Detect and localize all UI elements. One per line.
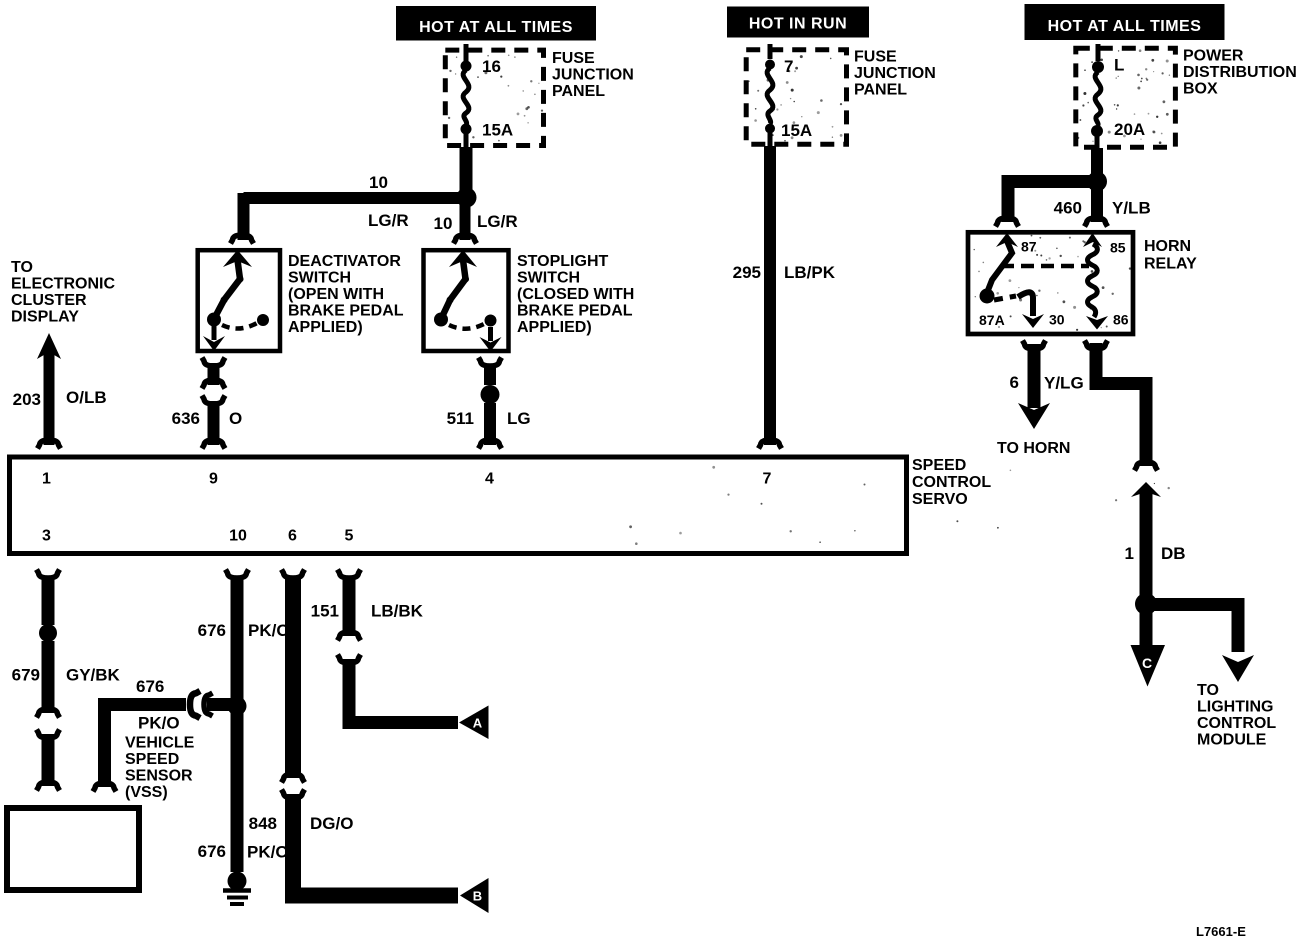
label: SPEED CONTROL SERVO bbox=[912, 457, 991, 508]
scan speckle texture bbox=[448, 49, 1170, 545]
svg-text:SWITCH: SWITCH bbox=[517, 270, 580, 287]
svg-text:PK/O: PK/O bbox=[247, 843, 289, 862]
svg-text:460: 460 bbox=[1054, 199, 1082, 218]
wire 676 PK/O continues to ground bbox=[231, 706, 244, 872]
svg-text:SWITCH: SWITCH bbox=[288, 270, 351, 287]
svg-text:SERVO: SERVO bbox=[912, 491, 968, 508]
svg-text:DISTRIBUTION: DISTRIBUTION bbox=[1183, 64, 1297, 81]
wire 460 Y/LB branch left to relay pin 87 bbox=[1008, 182, 1097, 223]
svg-text:POWER: POWER bbox=[1183, 48, 1244, 65]
svg-text:3: 3 bbox=[42, 528, 51, 545]
svg-text:CLUSTER: CLUSTER bbox=[11, 292, 87, 309]
wire: 848 lower run to off-page connector B bbox=[282, 790, 459, 896]
svg-text:O: O bbox=[229, 409, 242, 428]
svg-text:1: 1 bbox=[42, 471, 51, 488]
svg-text:(CLOSED WITH: (CLOSED WITH bbox=[517, 286, 634, 303]
wire: fuse 16 output down to junction bbox=[460, 147, 473, 192]
svg-text:848: 848 bbox=[249, 814, 277, 833]
deactivator switch arm and contacts bbox=[203, 250, 269, 351]
speed control servo box bbox=[10, 457, 907, 554]
svg-text:LB/BK: LB/BK bbox=[371, 602, 424, 621]
svg-text:APPLIED): APPLIED) bbox=[288, 319, 363, 336]
branch: arrow connector to VSS 676 PK/O bbox=[93, 691, 237, 792]
svg-text:203: 203 bbox=[13, 390, 41, 409]
svg-text:(VSS): (VSS) bbox=[125, 784, 168, 801]
wire: junction down to stoplight switch bbox=[460, 202, 471, 240]
deactivator switch S1 box bbox=[198, 250, 280, 351]
wire 848 DG/O from servo pin 6 bbox=[282, 570, 305, 783]
svg-text:BRAKE PEDAL: BRAKE PEDAL bbox=[517, 303, 633, 320]
svg-text:6: 6 bbox=[1010, 373, 1019, 392]
svg-text:ELECTRONIC: ELECTRONIC bbox=[11, 276, 115, 293]
off-page connector A bbox=[459, 706, 489, 740]
svg-text:BRAKE PEDAL: BRAKE PEDAL bbox=[288, 303, 404, 320]
svg-text:Y/LG: Y/LG bbox=[1044, 374, 1084, 393]
label: FUSE JUNCTION PANEL (left) bbox=[552, 50, 634, 100]
svg-text:676: 676 bbox=[198, 621, 226, 640]
svg-text:DEACTIVATOR: DEACTIVATOR bbox=[288, 253, 401, 270]
fuse L 20A symbol bbox=[1091, 44, 1104, 149]
svg-text:1: 1 bbox=[1125, 544, 1134, 563]
wire: branch right to lighting control module bbox=[1146, 605, 1254, 683]
junction node 460 Y/LB bbox=[1087, 172, 1107, 192]
svg-text:C: C bbox=[1142, 655, 1152, 671]
wire: PDB output down to junction bbox=[1091, 148, 1103, 176]
svg-text:DB: DB bbox=[1161, 544, 1186, 563]
label: POWER DISTRIBUTION BOX bbox=[1183, 48, 1297, 98]
svg-text:RELAY: RELAY bbox=[1144, 256, 1197, 273]
relay internals: arm, contacts, coil bbox=[980, 233, 1109, 330]
svg-text:10: 10 bbox=[434, 214, 453, 233]
connector: into stoplight switch bbox=[454, 235, 477, 244]
svg-text:PANEL: PANEL bbox=[552, 83, 605, 100]
wire: relay pin 86 jog down bbox=[1085, 341, 1158, 471]
svg-text:CONTROL: CONTROL bbox=[912, 474, 991, 491]
svg-text:676: 676 bbox=[136, 677, 164, 696]
svg-text:HOT AT ALL TIMES: HOT AT ALL TIMES bbox=[419, 19, 573, 36]
fuse junction panel box (middle, fuse 7) bbox=[746, 50, 846, 145]
svg-text:SPEED: SPEED bbox=[912, 457, 966, 474]
svg-text:Y/LB: Y/LB bbox=[1112, 199, 1151, 218]
svg-text:15A: 15A bbox=[781, 121, 812, 140]
label: HORN RELAY bbox=[1144, 238, 1197, 273]
svg-text:86: 86 bbox=[1113, 312, 1129, 328]
svg-text:85: 85 bbox=[1110, 240, 1126, 256]
svg-text:FUSE: FUSE bbox=[552, 50, 595, 67]
connector: into relay pin 85 bbox=[1085, 218, 1108, 227]
horn relay K1 box bbox=[968, 232, 1133, 334]
connector pigtail below deactivator switch bbox=[202, 358, 225, 389]
wire 1 DB to junction bbox=[1131, 482, 1161, 598]
svg-text:511: 511 bbox=[447, 409, 474, 428]
svg-text:APPLIED): APPLIED) bbox=[517, 319, 592, 336]
wire 6 Y/LG from relay pin 30 to horn bbox=[1018, 341, 1050, 430]
svg-text:30: 30 bbox=[1049, 312, 1065, 328]
pin labels: 87 85 87A 30 86 bbox=[979, 239, 1129, 329]
label: TO LIGHTING CONTROL MODULE bbox=[1197, 682, 1276, 749]
svg-text:10: 10 bbox=[229, 528, 247, 545]
svg-text:LB/PK: LB/PK bbox=[784, 263, 836, 282]
wire 151 LB/BK from servo pin 5 bbox=[338, 570, 361, 641]
wire 676 PK/O from servo pin 10 bbox=[226, 570, 249, 700]
fuse 7 15A symbol bbox=[765, 44, 775, 146]
svg-text:636: 636 bbox=[172, 409, 200, 428]
svg-text:4: 4 bbox=[485, 471, 494, 488]
svg-text:DISPLAY: DISPLAY bbox=[11, 309, 79, 326]
svg-text:TO: TO bbox=[1197, 682, 1219, 699]
svg-text:10: 10 bbox=[369, 173, 388, 192]
stoplight switch arm and contacts bbox=[434, 250, 502, 352]
svg-text:JUNCTION: JUNCTION bbox=[552, 67, 634, 84]
svg-text:PANEL: PANEL bbox=[854, 82, 907, 99]
ground G1 bbox=[223, 872, 251, 905]
power distribution box (fuse L) bbox=[1076, 48, 1176, 147]
svg-text:HOT AT ALL TIMES: HOT AT ALL TIMES bbox=[1048, 18, 1202, 35]
svg-text:GY/BK: GY/BK bbox=[66, 666, 121, 685]
svg-text:PK/O: PK/O bbox=[248, 621, 290, 640]
svg-text:LIGHTING: LIGHTING bbox=[1197, 699, 1273, 716]
wire 203 O/LB arrow up from servo pin 1 bbox=[37, 333, 61, 449]
svg-text:CONTROL: CONTROL bbox=[1197, 715, 1276, 732]
svg-text:VEHICLE: VEHICLE bbox=[125, 735, 195, 752]
svg-text:HOT IN RUN: HOT IN RUN bbox=[749, 16, 847, 33]
svg-text:JUNCTION: JUNCTION bbox=[854, 65, 936, 82]
vehicle speed sensor box bbox=[7, 808, 139, 890]
stoplight switch S2 box bbox=[424, 250, 509, 351]
svg-text:7: 7 bbox=[763, 471, 772, 488]
svg-text:O/LB: O/LB bbox=[66, 388, 107, 407]
svg-text:LG: LG bbox=[507, 409, 531, 428]
banner: HOT AT ALL TIMES (right) bbox=[1025, 4, 1225, 40]
svg-text:LG/R: LG/R bbox=[368, 211, 409, 230]
label: FUSE JUNCTION PANEL (middle) bbox=[854, 49, 936, 99]
svg-text:5: 5 bbox=[345, 528, 354, 545]
svg-text:679: 679 bbox=[12, 666, 40, 685]
wire 295 LB/PK down to servo pin 7 bbox=[759, 146, 782, 449]
off-page connector B bbox=[460, 878, 489, 913]
label: STOPLIGHT SWITCH (CLOSED WITH BRAKE PEDAL APPLIED) bbox=[517, 253, 634, 336]
connector: into relay pin 87 bbox=[996, 218, 1019, 227]
servo pin numbers bbox=[42, 471, 772, 545]
svg-text:MODULE: MODULE bbox=[1197, 732, 1267, 749]
svg-text:FUSE: FUSE bbox=[854, 49, 897, 66]
wire 636 O to servo pin 9 bbox=[202, 396, 225, 449]
label: DEACTIVATOR SWITCH (OPEN WITH BRAKE PEDAL APPLIED) bbox=[288, 253, 404, 336]
svg-text:HORN: HORN bbox=[1144, 238, 1191, 255]
off-page connector C bbox=[1131, 645, 1166, 687]
svg-text:9: 9 bbox=[209, 471, 218, 488]
wire: junction down to relay pin 85 bbox=[1091, 187, 1103, 222]
fuse junction panel box (left, fuse 16) bbox=[445, 50, 543, 145]
svg-text:DG/O: DG/O bbox=[310, 814, 353, 833]
svg-text:STOPLIGHT: STOPLIGHT bbox=[517, 253, 608, 270]
junction node (10 LG/R splice) bbox=[457, 188, 477, 208]
junction node 1 DB bbox=[1135, 593, 1157, 615]
wire 679 GY/BK from servo pin 3 bbox=[37, 570, 60, 718]
svg-text:L7661-E: L7661-E bbox=[1196, 924, 1246, 939]
banner: HOT IN RUN bbox=[727, 7, 869, 38]
wire 511 LG from stoplight to servo pin 4 bbox=[479, 358, 502, 449]
wire: pin 3 lower pigtail into VSS bbox=[37, 730, 60, 791]
svg-text:87A: 87A bbox=[979, 312, 1005, 328]
svg-text:20A: 20A bbox=[1114, 120, 1145, 139]
svg-text:15A: 15A bbox=[482, 121, 513, 140]
svg-text:LG/R: LG/R bbox=[477, 212, 518, 231]
svg-text:6: 6 bbox=[288, 528, 297, 545]
svg-text:7: 7 bbox=[784, 57, 793, 76]
svg-text:A: A bbox=[473, 716, 483, 731]
svg-text:BOX: BOX bbox=[1183, 81, 1218, 98]
svg-text:PK/O: PK/O bbox=[138, 714, 180, 733]
svg-text:SENSOR: SENSOR bbox=[125, 768, 193, 785]
connector: into deactivator switch bbox=[231, 235, 254, 244]
junction node on wire 676 bbox=[228, 697, 247, 716]
svg-text:B: B bbox=[473, 889, 482, 904]
wire: down to off-page connector C bbox=[1140, 609, 1153, 646]
svg-text:SPEED: SPEED bbox=[125, 751, 179, 768]
svg-text:295: 295 bbox=[733, 263, 761, 282]
svg-text:676: 676 bbox=[198, 842, 226, 861]
wire 10 LG/R horizontal to deactivator switch bbox=[244, 192, 461, 204]
svg-text:TO HORN: TO HORN bbox=[997, 440, 1070, 457]
wire: left drop to deactivator switch bbox=[238, 193, 250, 240]
fuse 16 15A symbol bbox=[461, 44, 472, 148]
svg-text:151: 151 bbox=[311, 602, 339, 621]
svg-text:(OPEN WITH: (OPEN WITH bbox=[288, 286, 384, 303]
wire: 151 lower run to off-page connector A bbox=[338, 655, 459, 723]
svg-text:L: L bbox=[1114, 56, 1124, 75]
svg-text:TO: TO bbox=[11, 259, 33, 276]
svg-text:87: 87 bbox=[1021, 239, 1037, 255]
label: TO ELECTRONIC CLUSTER DISPLAY bbox=[11, 259, 115, 326]
label: VEHICLE SPEED SENSOR (VSS) bbox=[125, 735, 195, 802]
banner: HOT AT ALL TIMES (left) bbox=[396, 6, 596, 41]
